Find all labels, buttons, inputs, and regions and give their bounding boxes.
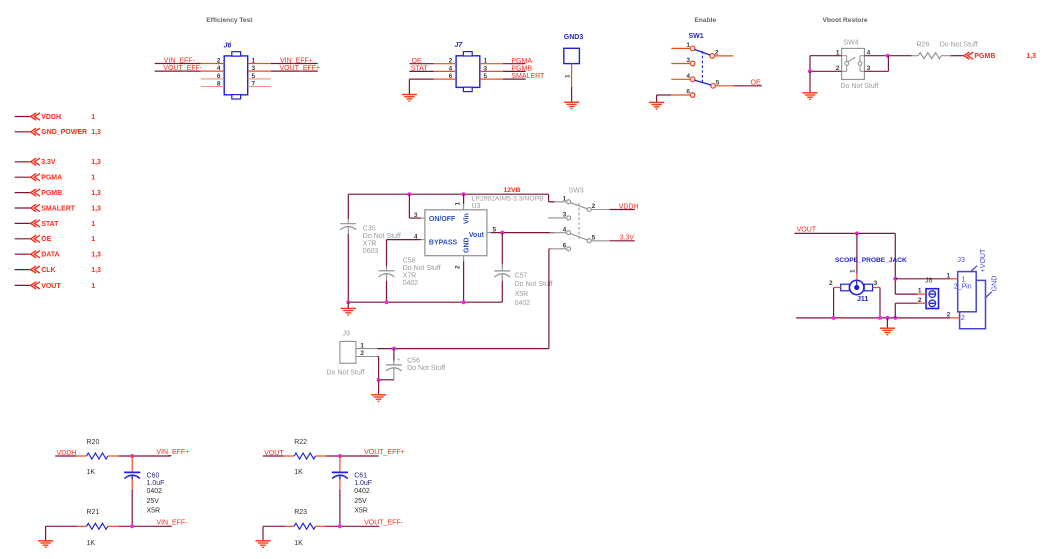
svg-text:1: 1: [91, 283, 95, 290]
connector J7: [455, 42, 480, 92]
off-page connector PGMB: [15, 189, 101, 197]
SW3 pin 2: [587, 203, 610, 211]
svg-text:PGMB: PGMB: [511, 66, 532, 73]
wire to ground: [886, 318, 888, 328]
svg-text:VOUT_EFF-: VOUT_EFF-: [364, 519, 404, 526]
wire J6.1 to VIN_EFF+: [271, 63, 318, 65]
svg-text:J3: J3: [957, 255, 965, 264]
J6 pin 7: [248, 81, 271, 88]
svg-text:SMALERT: SMALERT: [41, 205, 76, 212]
svg-text:OE: OE: [41, 236, 51, 243]
ground at J7 pin 6: [402, 95, 417, 102]
wire J7.3 PGMB: [503, 70, 526, 72]
wire VOUT to J11.1: [856, 233, 858, 273]
J3 pin 1: [947, 273, 958, 280]
svg-text:C58: C58: [403, 258, 416, 265]
wire OE to J7.2: [409, 63, 433, 65]
U3 pin 1: [455, 194, 464, 210]
svg-text:8: 8: [217, 81, 221, 88]
capacitor C58 (Do Not Stuff): [379, 258, 441, 287]
svg-text:GND_POWER: GND_POWER: [41, 129, 87, 136]
svg-text:1: 1: [91, 236, 95, 243]
wire down to ground: [809, 71, 811, 92]
svg-text:1K: 1K: [87, 540, 96, 547]
svg-text:1,3: 1,3: [91, 252, 101, 259]
wire R22 to VOUT_EFF+: [326, 455, 379, 457]
SW3 pin 4: [550, 226, 571, 234]
svg-text:2_Pin: 2_Pin: [954, 284, 972, 291]
J6 pin 8: [201, 81, 224, 88]
wire SW3.5 to 3.3V: [610, 240, 635, 242]
junction: [130, 454, 134, 458]
svg-text:4: 4: [449, 65, 453, 72]
svg-text:ON/OFF: ON/OFF: [429, 216, 456, 223]
wire J11.2 down: [833, 288, 835, 318]
SW3 pin 6: [550, 243, 571, 251]
resistor R22: [284, 439, 327, 476]
SW3 linkage dashed: [578, 203, 580, 239]
svg-text:X7R: X7R: [403, 272, 417, 279]
capacitor C60: [124, 456, 164, 515]
svg-text:0402: 0402: [354, 488, 370, 495]
svg-text:6: 6: [686, 89, 690, 96]
wire ground rail: [348, 301, 502, 303]
svg-text:1K: 1K: [87, 469, 96, 476]
wire R23 to VOUT_EFF-: [326, 525, 379, 527]
connector J3: [954, 248, 999, 329]
J7 pin 1: [480, 58, 503, 65]
svg-text:R20: R20: [87, 439, 100, 446]
ground at SW1 pin 6: [649, 102, 664, 109]
connector J9 (Do Not Stuff): [327, 330, 365, 376]
off-page connector OE: [15, 235, 96, 243]
off-page connector VDDH: [15, 113, 96, 121]
svg-text:R22: R22: [294, 439, 307, 446]
ground below rail: [880, 328, 895, 335]
J7 pin 5: [480, 73, 503, 80]
svg-text:SW1: SW1: [689, 33, 704, 40]
ground test point GND3: [564, 34, 584, 87]
wire J7.6 to ground: [409, 79, 433, 94]
SW1 lever 1-2: [695, 50, 711, 56]
svg-text:C56: C56: [407, 358, 420, 365]
svg-text:X7R: X7R: [363, 241, 377, 248]
wire C58 to gnd rail: [386, 281, 388, 302]
svg-text:SMALERT: SMALERT: [511, 73, 545, 80]
svg-text:R26: R26: [917, 41, 930, 48]
svg-text:VDDH: VDDH: [619, 203, 639, 210]
svg-text:3: 3: [874, 280, 878, 287]
svg-text:VIN_EFF+: VIN_EFF+: [280, 58, 313, 65]
svg-text:3.3V: 3.3V: [620, 235, 635, 242]
junction: [338, 524, 342, 528]
svg-text:1,3: 1,3: [91, 190, 101, 197]
wire SW1.6 to ground: [657, 95, 672, 102]
J6 pin 4: [201, 65, 224, 72]
SW3 pin 1: [550, 196, 571, 204]
J6 pin 2: [201, 58, 224, 65]
svg-text:Vboot Restore: Vboot Restore: [823, 17, 868, 24]
svg-text:J7: J7: [455, 42, 464, 49]
svg-text:Do Not Stuff: Do Not Stuff: [327, 370, 365, 377]
SW1 pin 6: [671, 89, 695, 98]
ground at SW4: [802, 93, 817, 100]
wire C57 to gnd rail: [501, 281, 503, 302]
svg-text:Vout: Vout: [469, 232, 485, 239]
svg-text:OE: OE: [751, 80, 761, 87]
svg-text:0603: 0603: [363, 248, 379, 255]
junction: [500, 231, 504, 235]
resistor R23: [285, 509, 326, 547]
svg-text:4: 4: [414, 233, 418, 240]
off-page connector PGMA: [15, 174, 96, 182]
junction: [338, 454, 342, 458]
svg-text:GND: GND: [463, 237, 470, 253]
svg-text:VOUT_EFF+: VOUT_EFF+: [364, 449, 405, 456]
SW1 lever 4-5: [695, 80, 711, 85]
svg-text:J8: J8: [925, 278, 933, 285]
SW3 lever 1-2: [571, 203, 588, 209]
wire C56 bottom: [379, 379, 394, 381]
J7 pin 4: [434, 65, 457, 72]
svg-text:2: 2: [947, 312, 951, 319]
off-page connector GND_POWER: [15, 128, 101, 136]
off-page connector CLK: [15, 266, 101, 274]
svg-text:1.0uF: 1.0uF: [354, 480, 372, 487]
svg-text:1: 1: [947, 273, 951, 280]
svg-text:1,3: 1,3: [91, 159, 101, 166]
svg-text:5: 5: [716, 79, 720, 86]
svg-text:0402: 0402: [515, 300, 531, 307]
svg-text:2: 2: [360, 350, 364, 357]
junction: [893, 277, 897, 281]
svg-text:2: 2: [918, 297, 922, 304]
junction: [855, 231, 859, 235]
junction: [377, 378, 381, 382]
off-page connector SMALERT: [15, 204, 101, 212]
regulator U3: [425, 196, 544, 256]
switch SW1: [689, 33, 704, 40]
svg-text:1: 1: [484, 58, 488, 65]
wire 12VB to SW3.1: [549, 194, 555, 202]
svg-text:U3: U3: [472, 203, 481, 210]
svg-text:J6: J6: [224, 42, 232, 49]
wire VOUT to R22: [263, 455, 284, 457]
J8 pin 2: [918, 297, 926, 304]
svg-text:25V: 25V: [354, 498, 367, 505]
svg-text:1,3: 1,3: [91, 129, 101, 136]
U3 pin 5 Vout wire: [487, 226, 554, 233]
ground below C35: [341, 308, 356, 315]
svg-text:1: 1: [850, 269, 857, 273]
terminal block J8: [925, 278, 939, 309]
svg-text:5: 5: [493, 226, 497, 233]
wire 12VB rail: [348, 193, 548, 195]
svg-text:LP2992AIM5-3.3/NOPB: LP2992AIM5-3.3/NOPB: [472, 196, 545, 203]
wire J9.1 to SW3.6: [377, 348, 549, 350]
SW1 linkage dashed: [701, 51, 703, 83]
SW1 pin 1: [671, 42, 695, 51]
SW3 pin 5: [587, 235, 610, 243]
wire C61 to bottom: [339, 490, 341, 527]
svg-text:Do Not Stuff: Do Not Stuff: [515, 281, 553, 288]
wire R26 to PGMB flag: [951, 55, 964, 57]
svg-text:DATA: DATA: [41, 252, 59, 259]
svg-text:Do Not Stuff: Do Not Stuff: [403, 265, 441, 272]
svg-text:PGMA: PGMA: [41, 175, 62, 182]
svg-text:4: 4: [217, 65, 221, 72]
svg-text:Enable: Enable: [695, 17, 717, 24]
svg-text:1,3: 1,3: [91, 205, 101, 212]
J6 pin 1: [248, 58, 271, 65]
junction: [385, 300, 389, 304]
junction: [462, 192, 466, 196]
svg-text:1: 1: [252, 58, 256, 65]
resistor R20: [76, 439, 119, 476]
svg-text:VDDH: VDDH: [41, 114, 61, 121]
junction: [878, 316, 882, 320]
svg-text:R23: R23: [294, 509, 307, 516]
svg-text:2: 2: [961, 315, 965, 322]
J11 pin 2: [829, 280, 841, 288]
capacitor C57 (Do Not Stuff): [494, 264, 552, 307]
svg-text:5: 5: [484, 73, 488, 80]
svg-text:1K: 1K: [294, 469, 303, 476]
svg-text:7: 7: [252, 81, 256, 88]
svg-text:VIN_EFF-: VIN_EFF-: [164, 58, 196, 65]
wire SW1.5 to OE: [733, 85, 762, 87]
connector J6: [224, 42, 248, 99]
svg-text:GND3: GND3: [564, 34, 584, 41]
svg-text:Vin: Vin: [463, 213, 470, 224]
ground below J9: [371, 395, 386, 402]
svg-text:VOUT_EFF-: VOUT_EFF-: [163, 65, 203, 72]
off-page connector STAT: [15, 220, 96, 228]
svg-text:1: 1: [360, 342, 364, 349]
wire SW4.3 right: [864, 56, 888, 72]
capacitor C56 (Do Not Stuff): [386, 349, 445, 380]
ground at R23: [255, 541, 270, 548]
junction: [130, 524, 134, 528]
capacitor C61: [332, 456, 372, 515]
wire VOUT_EFF- to J6.4: [155, 70, 201, 72]
U3 pin 4 wire to C58: [387, 233, 425, 266]
off-page connector 3.3V: [15, 158, 101, 166]
svg-text:C35: C35: [363, 226, 376, 233]
wire SW4.2 left: [810, 70, 842, 72]
wire R21 to VIN_EFF-: [118, 525, 171, 527]
svg-text:Do Not Stuff: Do Not Stuff: [363, 233, 401, 240]
U3 pin 3 wire from 12VB: [409, 194, 425, 219]
svg-text:+VOUT: +VOUT: [980, 248, 987, 272]
svg-text:VIN_EFF-: VIN_EFF-: [156, 519, 188, 526]
wire J6.3 to VOUT_EFF+: [271, 70, 318, 72]
svg-text:3: 3: [484, 65, 488, 72]
svg-text:1: 1: [962, 276, 966, 283]
J6 pin 6: [201, 73, 224, 80]
wire Vout to C57: [501, 233, 503, 265]
svg-text:1K: 1K: [294, 540, 303, 547]
wire J8 pin1 branch: [895, 293, 918, 295]
svg-text:X5R: X5R: [515, 291, 529, 298]
junction: [893, 316, 897, 320]
svg-text:5: 5: [592, 235, 596, 242]
wire VOUT rail: [794, 233, 895, 294]
junction: [886, 54, 890, 58]
svg-text:0402: 0402: [147, 488, 163, 495]
svg-text:C57: C57: [515, 273, 528, 280]
svg-text:Do Not Stuff: Do Not Stuff: [407, 365, 445, 372]
svg-text:SW4: SW4: [844, 39, 859, 46]
wire J8 pin2 branch: [895, 303, 918, 318]
svg-text:1: 1: [564, 74, 571, 78]
wire to ground: [347, 302, 349, 308]
J7 pin 2: [434, 58, 457, 65]
SW3 lever 4-5: [571, 234, 588, 241]
svg-text:3: 3: [252, 65, 256, 72]
resistor R26 (Do Not Stuff): [912, 41, 978, 58]
svg-text:4: 4: [686, 73, 690, 80]
SW1 pin 2: [710, 49, 733, 58]
svg-text:2: 2: [449, 58, 453, 65]
SW1 pin 4: [671, 73, 695, 82]
wire to ground: [378, 380, 380, 395]
svg-text:0402: 0402: [403, 280, 419, 287]
SW3 pin 3: [548, 212, 571, 220]
J9 pin 1: [356, 342, 377, 349]
junction: [808, 69, 812, 73]
svg-text:1,3: 1,3: [91, 267, 101, 274]
J7 pin 6: [434, 73, 457, 80]
svg-text:1: 1: [91, 221, 95, 228]
svg-text:R21: R21: [87, 509, 100, 516]
wire ground to R21: [46, 526, 78, 540]
wire R20 to VIN_EFF+: [118, 455, 170, 457]
ground below GND3: [564, 102, 579, 109]
capacitor C35 (Do Not Stuff): [340, 219, 401, 255]
svg-text:GND: GND: [991, 276, 998, 292]
svg-text:2: 2: [592, 203, 596, 210]
svg-text:1: 1: [918, 287, 922, 294]
wire SW4.4 right: [864, 55, 911, 57]
svg-text:1: 1: [91, 175, 95, 182]
wire J7.1 PGMA: [503, 63, 526, 65]
svg-text:3: 3: [414, 212, 418, 219]
svg-text:VOUT: VOUT: [41, 283, 61, 290]
wire VIN_EFF- to J6.2: [155, 63, 201, 65]
svg-text:C60: C60: [147, 472, 160, 479]
junction: [392, 347, 396, 351]
svg-text:Do Not Stuff: Do Not Stuff: [940, 41, 978, 48]
wire ground to R23: [263, 526, 285, 540]
wire SW3.6 down to J9 wire: [548, 249, 551, 349]
svg-text:STAT: STAT: [41, 221, 59, 228]
wire STAT to J7.4: [409, 70, 433, 72]
scope jack J11: [841, 269, 873, 303]
svg-text:X5R: X5R: [354, 508, 368, 515]
svg-text:1.0uF: 1.0uF: [147, 480, 165, 487]
svg-text:+: +: [397, 358, 401, 364]
SW1 pin 5: [711, 79, 734, 88]
svg-text:2: 2: [829, 280, 833, 287]
junction: [832, 316, 836, 320]
svg-text:6: 6: [563, 243, 567, 250]
wire GND3 to ground: [571, 87, 573, 102]
J3 pin 2: [947, 312, 960, 319]
svg-text:Do Not Stuff: Do Not Stuff: [841, 83, 879, 90]
wire SW4.1 left: [810, 56, 842, 72]
svg-text:1: 1: [455, 202, 462, 206]
svg-text:VOUT_EFF+: VOUT_EFF+: [280, 65, 321, 72]
svg-text:1: 1: [91, 114, 95, 121]
J8 pin 1: [918, 287, 926, 294]
svg-text:PGMB: PGMB: [41, 190, 62, 197]
svg-text:1,3: 1,3: [1026, 53, 1036, 60]
svg-text:2: 2: [217, 58, 221, 65]
svg-text:Efficiency Test: Efficiency Test: [206, 17, 253, 24]
off-page connector DATA: [15, 251, 101, 259]
svg-text:VIN_EFF+: VIN_EFF+: [156, 449, 189, 456]
wire 12VB to C35: [347, 194, 349, 219]
U3 pin 2 GND: [455, 256, 464, 303]
svg-text:STAT: STAT: [411, 66, 429, 73]
svg-text:3: 3: [686, 57, 690, 64]
svg-text:X5R: X5R: [147, 508, 161, 515]
svg-text:CLK: CLK: [41, 267, 55, 274]
svg-text:OE: OE: [412, 58, 422, 65]
svg-text:SW3: SW3: [569, 187, 584, 194]
svg-text:3.3V: 3.3V: [41, 159, 56, 166]
svg-text:SCOPE_PROBE_JACK: SCOPE_PROBE_JACK: [835, 257, 907, 264]
wire C35 to gnd rail: [347, 234, 349, 302]
svg-text:J11: J11: [857, 296, 868, 303]
svg-text:2: 2: [715, 49, 719, 56]
switch SW3: [569, 187, 584, 194]
wire J7.5 SMALERT: [503, 78, 526, 80]
svg-text:1: 1: [563, 196, 567, 203]
resistor R21: [77, 509, 118, 547]
svg-text:6: 6: [217, 73, 221, 80]
junction: [346, 300, 350, 304]
J6 pin 5: [248, 73, 271, 80]
svg-text:6: 6: [449, 73, 453, 80]
ground at R21: [38, 541, 53, 548]
svg-text:PGMA: PGMA: [511, 58, 532, 65]
SW1 pin 3: [671, 57, 695, 66]
svg-text:4: 4: [563, 226, 567, 233]
svg-text:J9: J9: [343, 330, 351, 337]
wire J9.2 to ground: [377, 357, 378, 380]
junction: [885, 316, 889, 320]
junction: [462, 300, 466, 304]
svg-text:2: 2: [455, 265, 462, 269]
wire bottom rail: [796, 317, 951, 319]
wire SW3.2 to VDDH: [610, 209, 635, 211]
svg-text:PGMB: PGMB: [974, 53, 995, 60]
svg-text:C61: C61: [354, 472, 367, 479]
svg-text:12VB: 12VB: [504, 187, 521, 194]
switch SW4 (Do Not Stuff): [836, 39, 879, 90]
J9 pin 2: [356, 350, 377, 357]
off-page connector VOUT: [15, 282, 96, 290]
svg-text:1: 1: [686, 42, 690, 49]
wire J11.3 down: [879, 288, 881, 318]
svg-text:3: 3: [563, 212, 567, 219]
off-page connector PGMB: [964, 52, 1036, 60]
svg-text:BYPASS: BYPASS: [429, 240, 458, 247]
wire VDDH to R20: [55, 455, 76, 457]
wire C60 to bottom: [131, 490, 133, 527]
